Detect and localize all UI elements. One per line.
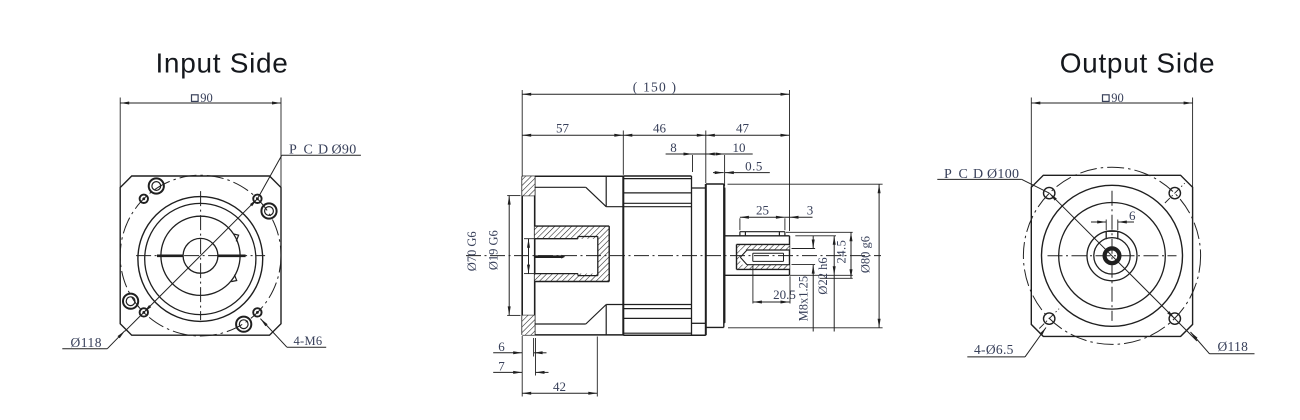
svg-text:Ø118: Ø118 [1218, 339, 1249, 354]
svg-text:( 150 ): ( 150 ) [633, 80, 677, 95]
svg-text:Ø70 G6: Ø70 G6 [465, 231, 479, 271]
svg-text:20.5: 20.5 [773, 287, 796, 302]
svg-text:8: 8 [670, 140, 677, 155]
svg-text:57: 57 [556, 121, 570, 136]
svg-text:47: 47 [736, 121, 750, 136]
svg-text:6: 6 [1129, 208, 1136, 223]
svg-text:3: 3 [807, 203, 814, 218]
svg-text:Ø22 h6: Ø22 h6 [816, 257, 830, 294]
svg-text:P: P [944, 167, 952, 182]
svg-text:Output Side: Output Side [1060, 48, 1216, 79]
svg-text:46: 46 [653, 121, 667, 136]
svg-text:C: C [304, 143, 313, 158]
svg-text:M8x1.25: M8x1.25 [797, 276, 811, 322]
svg-text:24.5: 24.5 [835, 240, 849, 264]
svg-text:7: 7 [498, 358, 505, 373]
svg-text:Ø118: Ø118 [71, 335, 103, 350]
svg-text:P: P [289, 143, 297, 158]
svg-text:D: D [973, 167, 983, 182]
svg-text:25: 25 [756, 203, 769, 218]
svg-text:90: 90 [200, 91, 213, 105]
svg-text:Ø80 g6: Ø80 g6 [859, 236, 873, 273]
svg-text:Ø19 G6: Ø19 G6 [486, 230, 500, 270]
svg-text:90: 90 [1111, 91, 1124, 105]
svg-text:0.5: 0.5 [745, 159, 763, 174]
svg-text:42: 42 [553, 379, 566, 394]
svg-text:C: C [959, 167, 968, 182]
svg-text:D: D [318, 143, 328, 158]
svg-text:Input Side: Input Side [155, 48, 288, 79]
svg-text:Ø100: Ø100 [987, 167, 1019, 182]
svg-text:4-Ø6.5: 4-Ø6.5 [974, 342, 1014, 357]
svg-text:Ø90: Ø90 [332, 143, 357, 158]
svg-text:10: 10 [733, 140, 746, 155]
svg-text:4-M6: 4-M6 [294, 334, 323, 348]
svg-text:6: 6 [498, 339, 505, 354]
